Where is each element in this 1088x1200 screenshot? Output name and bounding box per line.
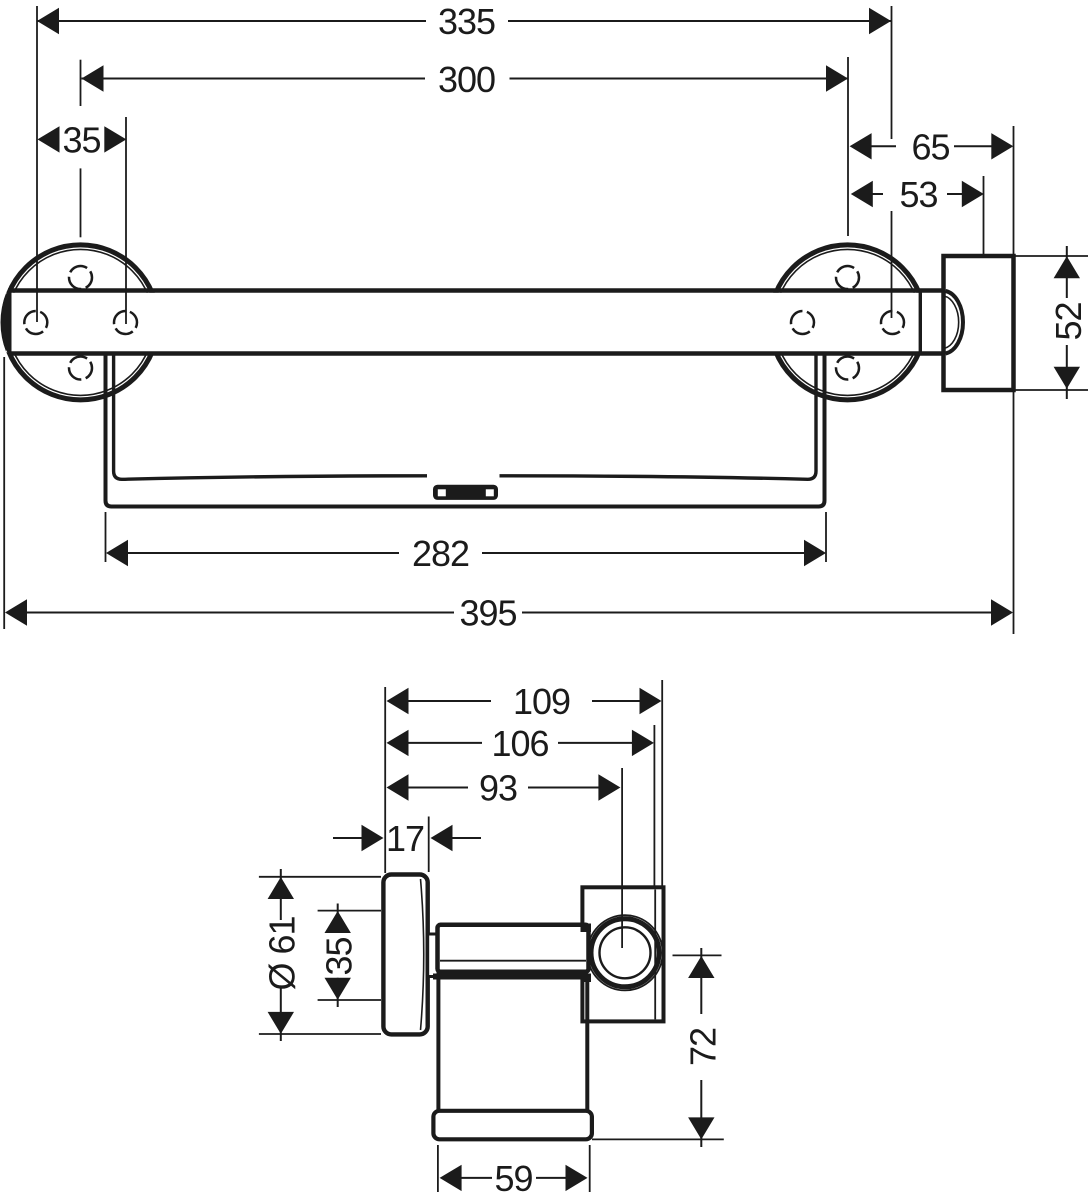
ext line 335/35 left: [36, 6, 38, 322]
shelf clip right notch: [486, 489, 494, 496]
arrow 52 bottom: [1054, 367, 1080, 389]
arrow 300 left: [82, 65, 104, 91]
arrow 109 right: [640, 688, 662, 714]
dim 65 line: [871, 145, 896, 147]
arrow 300 right: [826, 65, 848, 91]
square bracket plate (side): [582, 887, 663, 1021]
screw hole right plate top: [836, 266, 859, 289]
arrow 395 right: [991, 599, 1013, 625]
neck between plate and arm: [428, 934, 438, 977]
arrow 35b top: [325, 911, 351, 933]
ext line left 109/106/93/17: [384, 687, 386, 873]
arrow 59 right: [566, 1165, 588, 1191]
svg-text:335: 335: [438, 1, 495, 42]
cup right side: [585, 980, 589, 1113]
arrow 17 left: [362, 825, 384, 851]
screw hole left plate right: [114, 311, 137, 334]
ext line dia61 top: [259, 876, 381, 878]
screw hole right plate bottom: [836, 357, 859, 380]
arrow 93 left: [387, 774, 409, 800]
arrow 72 top: [688, 956, 714, 978]
dim dia61 line: [280, 869, 282, 920]
arrow 17 right: [431, 825, 453, 851]
shelf frame outer: [106, 354, 825, 507]
arrow 53 right: [962, 181, 984, 207]
ext line 53 right: [983, 176, 985, 254]
ext line 59 right: [589, 1145, 591, 1192]
svg-text:52: 52: [1048, 302, 1088, 340]
dim 106 line: [408, 742, 482, 744]
dim 93 line: [408, 787, 468, 789]
dim 17 tails: [333, 837, 362, 839]
svg-text:59: 59: [494, 1158, 532, 1199]
clamp ring thin outer circle: [587, 915, 662, 990]
dim 395 line: [26, 612, 454, 614]
DIMENSIONS side view: [259, 680, 724, 1192]
svg-text:35: 35: [62, 119, 100, 160]
svg-text:109: 109: [513, 681, 570, 722]
SIDE VIEW: [383, 875, 663, 1140]
shelf rail end (thick band): [433, 974, 591, 980]
dim 35b line: [337, 904, 339, 934]
ext line 395 right: [1013, 390, 1015, 634]
dim 109 line: [408, 700, 491, 702]
ext line 35b top: [318, 910, 381, 912]
screw hole right plate left: [791, 311, 814, 334]
arrow 93 right: [598, 774, 620, 800]
arrowheads front view: [5, 8, 1080, 626]
dim 53 line: [872, 193, 883, 195]
ext line 17 right: [428, 817, 430, 873]
clamp ring outer: [591, 919, 659, 987]
screw hole left plate bottom: [69, 357, 92, 380]
ext line 35b bottom: [318, 999, 381, 1001]
dim 300 line: [82, 78, 426, 80]
svg-text:282: 282: [412, 533, 469, 574]
dim 335 line: [37, 20, 426, 22]
dim 282 line: [127, 552, 399, 554]
right wall plate inner ring: [775, 249, 921, 395]
ext line 300 left: [80, 60, 82, 106]
dim texts front view: [62, 1, 1088, 634]
dim 52 line: [1066, 246, 1068, 298]
arrow 395 left: [5, 599, 27, 625]
ext line 335 right: [891, 6, 893, 139]
DIMENSIONS front view: [4, 6, 1088, 634]
cup left side: [436, 980, 440, 1113]
ext line 300/65/53 right: [847, 57, 849, 236]
shelf center clip: [433, 485, 498, 500]
arm-square clamp tabs: [581, 924, 592, 933]
ext line 395 left: [3, 357, 5, 629]
ext line 72 top: [673, 954, 722, 956]
ext line 106 right: [653, 725, 655, 886]
arrow 72 bottom: [688, 1117, 714, 1139]
svg-text:35: 35: [319, 937, 360, 975]
dim 72 line: [700, 948, 702, 1014]
dim 59 line: [461, 1177, 492, 1179]
grab bar tube end line: [919, 291, 922, 354]
svg-text:300: 300: [438, 59, 495, 100]
arrow 35 left: [38, 126, 60, 152]
arrowheads side view: [268, 688, 715, 1191]
arrow 335 left: [37, 8, 59, 34]
ext line 282 left: [105, 512, 107, 562]
left wall plate outer circle: [3, 245, 158, 400]
ext line 72 bottom: [592, 1138, 724, 1140]
grab bar bottom edge: [8, 351, 944, 355]
arrow 53 left: [851, 181, 873, 207]
arrow 109 left: [387, 688, 409, 714]
arrow 106 right: [632, 730, 654, 756]
ext line 109 right: [661, 680, 663, 886]
svg-text:17: 17: [386, 818, 424, 859]
ext line 52 top: [1016, 255, 1088, 257]
arm shadow line: [440, 960, 586, 962]
grab bar left end cap: [1, 289, 11, 355]
shelf frame inner rail: [114, 354, 816, 479]
svg-text:72: 72: [683, 1028, 724, 1066]
svg-text:Ø 61: Ø 61: [262, 916, 303, 990]
arrow 52 top: [1054, 256, 1080, 278]
svg-text:395: 395: [459, 593, 516, 634]
support arm tube: [438, 925, 589, 972]
svg-text:53: 53: [899, 174, 937, 215]
svg-text:65: 65: [911, 126, 949, 167]
grab bar body (white fill over plates): [6, 293, 944, 353]
arrow 282 left: [106, 540, 128, 566]
left wall plate inner ring: [8, 249, 154, 395]
screw hole left plate top: [69, 266, 92, 289]
arrow 282 right: [804, 540, 826, 566]
ext line 65 far right: [1013, 126, 1015, 256]
round plate side slab: [383, 875, 427, 1035]
arrow 106 left: [387, 730, 409, 756]
square bracket inner face line: [654, 890, 656, 1020]
dim texts side view: [262, 681, 724, 1199]
ext line 59 left: [437, 1145, 439, 1192]
arrow dia61 top: [268, 877, 294, 899]
ext line 52 bottom: [1016, 389, 1088, 391]
ext line dia61 bottom: [259, 1033, 381, 1035]
cup base rim: [433, 1111, 592, 1140]
bar end dome outer arc: [946, 291, 963, 354]
arrow 335 right: [869, 8, 891, 34]
ext line 282 right: [825, 512, 827, 562]
wall bracket square (right end, side profile): [944, 256, 1014, 390]
arrow 65 right: [991, 133, 1013, 159]
arrow 35 right: [104, 126, 126, 152]
svg-text:106: 106: [491, 723, 548, 764]
arrow dia61 bottom: [268, 1012, 294, 1034]
screw hole right plate right: [881, 311, 904, 334]
bar end dome inner arc: [944, 296, 959, 349]
ext line 35 right: [125, 117, 127, 324]
svg-text:93: 93: [479, 768, 517, 809]
ext line 93 right: [621, 768, 623, 948]
arrow 65 left: [850, 133, 872, 159]
plate face curve: [421, 879, 424, 1030]
arrow 35b bottom: [325, 978, 351, 1000]
arrow 59 left: [440, 1165, 462, 1191]
right wall plate outer circle: [770, 245, 925, 400]
grab bar top edge: [8, 288, 944, 292]
screw hole left plate left: [24, 311, 47, 334]
shelf clip left notch: [438, 489, 446, 496]
clamp ring bore: [600, 927, 651, 978]
